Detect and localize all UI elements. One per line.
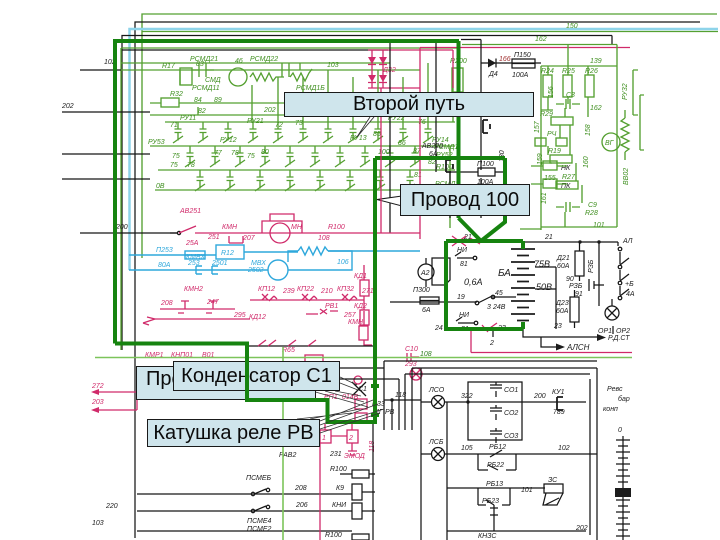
- resistor R27: [556, 181, 578, 189]
- contact RSMD21: [191, 63, 214, 77]
- pink branch vertical: [452, 50, 454, 88]
- diode group D32: [368, 50, 453, 88]
- left margin wire: [62, 178, 150, 180]
- contact KP22: [302, 294, 317, 301]
- relay RCh: [535, 138, 546, 146]
- left margin wire 102: [80, 69, 121, 71]
- resistor loop above MN: [262, 214, 302, 233]
- contact RB23: [478, 488, 510, 505]
- capacitor C3: [556, 99, 580, 109]
- wire 19 with switch 45: [390, 297, 516, 302]
- wire KD12: [155, 318, 250, 320]
- fuse P100 100A: [478, 168, 495, 176]
- black risers AB220: [390, 41, 436, 233]
- bracket contacts right: [633, 70, 644, 150]
- highlighted circuit thick green path: [115, 41, 523, 422]
- callout provod 100: [400, 184, 530, 216]
- matrix contacts row 2: [185, 146, 420, 167]
- fuse P150 100A: [512, 59, 535, 68]
- contact row KMR1 KNP01 V01: [247, 345, 373, 347]
- resistor R25: [563, 75, 572, 97]
- pink contact row KP: [250, 299, 364, 301]
- lamp OR1: [599, 242, 612, 306]
- wire 150 green top: [142, 31, 718, 33]
- wire 200 to AB251: [80, 232, 178, 234]
- matrix contacts row 3: [195, 170, 415, 191]
- callout hidden box provod: [136, 366, 316, 400]
- sheet border cyan frame: [130, 29, 719, 270]
- relay KNI row: [137, 510, 352, 512]
- arrow ALSN: [541, 337, 556, 347]
- nested block corners: [297, 361, 597, 430]
- pink feeder vertical: [419, 48, 421, 240]
- resistor R32: [161, 98, 179, 107]
- center vertical bus: [372, 424, 374, 540]
- button KNZS: [490, 505, 498, 531]
- wire 82: [150, 103, 310, 115]
- contact RB22: [478, 454, 516, 470]
- RSMD2 resistor: [445, 188, 455, 202]
- terminal 2: [492, 331, 494, 337]
- bottom wire row: [137, 530, 352, 532]
- callout pointer vtoroy put: [357, 117, 374, 137]
- motor MN: [270, 223, 290, 243]
- lamp O1 pink: [410, 368, 422, 380]
- battery BA cells: [511, 249, 535, 321]
- ammeter A2: [418, 264, 434, 280]
- battery taps: [535, 267, 556, 329]
- contact KP32: [342, 294, 357, 301]
- resistor R26: [585, 75, 594, 97]
- resistor zigzag RSMD1B: [250, 73, 284, 81]
- left margin wire 202: [62, 111, 150, 113]
- blue motor circuit upper wire: [129, 251, 420, 255]
- long green wire 108: [95, 357, 632, 359]
- blue motor row lower wire: [129, 269, 268, 271]
- thick green junction node: [371, 386, 379, 415]
- green riser bottom left: [282, 347, 284, 540]
- pink X junction marks: [452, 236, 480, 246]
- relay K9 row PSMEB: [137, 493, 352, 495]
- green column risers: [252, 63, 428, 122]
- loop back to motor: [288, 251, 352, 270]
- black top link: [461, 39, 481, 41]
- capacitor C9: [556, 202, 580, 212]
- pink drop from green bus: [470, 331, 472, 353]
- sheet border black frame 1: [135, 22, 700, 538]
- resistor R24: [543, 75, 552, 97]
- relay box SO1 SO2 SO3: [468, 382, 522, 440]
- bottom right unit frame: [421, 368, 597, 540]
- resistor R17: [180, 68, 192, 85]
- capacitor C1 cross: [354, 376, 362, 384]
- sheet border green outer frame: [142, 14, 717, 258]
- sheet border black frame 2: [122, 36, 612, 351]
- green vertical feeder: [450, 70, 453, 228]
- row RB13: [447, 402, 545, 540]
- contact KP12: [262, 294, 277, 301]
- green field: wire row RSMD21/22: [121, 63, 420, 85]
- battery feeder wire 21: [523, 241, 618, 243]
- sheet border inner green: [121, 48, 459, 350]
- green matrix bus wires: [150, 122, 455, 190]
- relay R12: [216, 245, 244, 259]
- right column rails: [541, 45, 617, 231]
- contact RSMD22: [282, 63, 289, 77]
- wire 118 junction: [384, 399, 421, 401]
- contact NK: [543, 161, 557, 170]
- contact PK: [543, 179, 557, 188]
- callout katushka rele RV: [147, 419, 320, 447]
- wire 166 with diode D4: [481, 62, 541, 64]
- wire 139 green: [541, 65, 617, 67]
- wire 162 green: [462, 44, 617, 46]
- resistor R200: [452, 68, 463, 92]
- resistor R19: [550, 155, 572, 163]
- pink feeder top wire: [420, 47, 630, 49]
- contact KMVH: [196, 266, 218, 274]
- resistor zigzag VG: [621, 110, 629, 160]
- callout vtoroy put: [284, 92, 534, 117]
- fuse P253 80A: [185, 251, 205, 259]
- motor SMD: [229, 68, 247, 86]
- resistor zigzag upper right: [290, 69, 312, 81]
- long pink wire: [471, 352, 632, 354]
- black riser P100: [480, 40, 482, 219]
- generator VG: [602, 133, 620, 151]
- relay RV coil: [355, 399, 367, 409]
- resistor zigzag MVH: [298, 247, 328, 255]
- controller square: [615, 488, 631, 497]
- relay EMOD boxes: [320, 430, 331, 443]
- resistor R29: [551, 117, 573, 125]
- pink riser to MN row: [380, 88, 382, 233]
- motor MVH: [268, 260, 288, 280]
- matrix contacts row 1: [173, 122, 433, 143]
- pink switch arm: [482, 323, 497, 332]
- left margin wire: [62, 153, 150, 155]
- arrow RD.ST: [523, 329, 597, 337]
- callout kondensator C1: [173, 361, 340, 391]
- callout pointer fan to RV coil: [297, 400, 384, 433]
- contact bracket KN: [483, 120, 490, 133]
- pink motor row MN wire: [195, 232, 420, 234]
- switch AB251: [170, 232, 178, 234]
- callout pointer line to C1: [312, 377, 368, 407]
- sheet border inner black: [122, 49, 388, 51]
- pink riser bottom: [319, 443, 321, 540]
